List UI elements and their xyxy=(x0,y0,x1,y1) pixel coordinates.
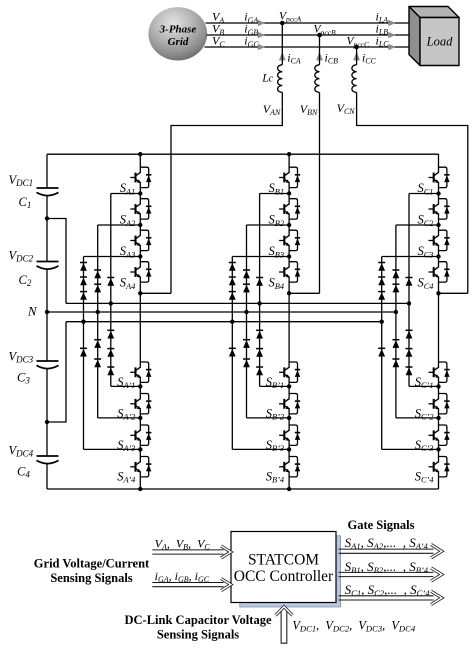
clamp diode DB1u2 xyxy=(229,277,236,285)
capacitor C1 xyxy=(37,188,59,196)
wire junction SA3-SA4 to clamp column xyxy=(84,256,141,258)
clamp diode DB2u1 xyxy=(243,270,250,278)
capacitor C3 xyxy=(37,361,59,369)
clamp diode DC3l2 xyxy=(406,349,413,357)
wire junction SC'2-SC'3 to clamp column xyxy=(396,417,439,419)
IGBT switch SC3 xyxy=(429,230,450,250)
clamp diode DA1l1 xyxy=(80,348,87,356)
leg C main vertical xyxy=(438,154,440,489)
wire leg A midpoint to phase xyxy=(140,292,171,294)
wire clamp column 2 leg C xyxy=(395,225,397,418)
junction leg A J2' xyxy=(138,416,142,420)
wire junction SB1-SB2 to clamp column xyxy=(260,193,290,195)
svg-text:Grid: Grid xyxy=(168,36,189,48)
junction clamp column 2 leg C on rail xyxy=(394,310,398,314)
svg-text:STATCOM: STATCOM xyxy=(248,552,319,569)
arrow iGB xyxy=(258,32,265,39)
arrow iLA xyxy=(388,20,395,27)
wire junction SB3-SB4 to clamp column xyxy=(232,256,289,258)
capacitor C2 xyxy=(37,262,59,270)
wire clamp column 3 leg B xyxy=(259,194,261,387)
IGBT switch SC4 xyxy=(429,262,450,282)
junction clamp column 3 leg B on rail xyxy=(257,301,261,305)
svg-text:Sensing Signals: Sensing Signals xyxy=(50,571,132,585)
junction leg C J1' xyxy=(436,384,440,388)
3-phase grid source xyxy=(148,7,207,60)
svg-text:Grid Voltage/Current: Grid Voltage/Current xyxy=(34,557,150,571)
arrow iLC xyxy=(388,44,395,51)
node leg B AC midpoint xyxy=(287,291,291,295)
IGBT switch SA1 xyxy=(130,167,151,187)
capacitor C4 xyxy=(37,456,59,464)
clamp diode DA2l1 xyxy=(94,340,101,348)
svg-text:3-Phase: 3-Phase xyxy=(159,24,197,36)
wire junction SB'1-SB'2 to clamp column xyxy=(260,385,290,387)
IGBT switch SC'4 xyxy=(429,457,450,477)
clamp diode DC3l3 xyxy=(406,367,413,375)
IGBT switch SC'2 xyxy=(429,394,450,414)
clamp diode DB2l1 xyxy=(243,340,250,348)
junction leg A J1' xyxy=(138,384,142,388)
wire tap3 branch xyxy=(47,322,66,422)
node N xyxy=(45,310,49,314)
junction leg C J3 xyxy=(436,254,440,258)
clamp diode DA2u2 xyxy=(94,284,101,292)
wire clamp rail N (middle) xyxy=(47,311,396,313)
clamp diode DC3u1 xyxy=(406,278,413,286)
arrow DC-link voltage input (up) xyxy=(281,611,287,643)
junction leg B J3 xyxy=(287,254,291,258)
wire tap1 branch xyxy=(47,219,66,304)
clamp diode DB3l2 xyxy=(256,349,263,357)
wire clamp column 1 leg B xyxy=(231,257,233,450)
inductor Lc phase A xyxy=(281,23,283,65)
IGBT switch SA'1 xyxy=(130,362,151,382)
junction leg B bottom bus xyxy=(287,487,291,491)
wire phase line C xyxy=(205,46,420,48)
junction clamp column 2 leg B on rail xyxy=(244,310,248,314)
wire clamp column 2 leg A xyxy=(97,225,99,418)
junction leg B top bus xyxy=(287,152,291,156)
clamp diode DA3l3 xyxy=(107,367,114,375)
junction leg A J3' xyxy=(138,447,142,451)
clamp diode DA1u2 xyxy=(80,277,87,285)
wire junction SC'3-SC'4 to clamp column xyxy=(382,448,439,450)
IGBT switch SA'4 xyxy=(130,457,151,477)
wire phase line A xyxy=(206,22,420,24)
IGBT switch SC'3 xyxy=(429,425,450,445)
arrow gate signals phase B xyxy=(339,572,434,576)
svg-text:c: c xyxy=(269,74,274,85)
wire leg C midpoint to phase xyxy=(439,292,468,294)
junction clamp column 1 leg C on rail xyxy=(380,320,384,324)
wire junction SC3-SC4 to clamp column xyxy=(382,256,439,258)
inductor Lc phase B xyxy=(319,35,321,65)
clamp diode DC1u1 xyxy=(378,263,385,271)
clamp diode DA3l2 xyxy=(107,349,114,357)
wire junction SC1-SC2 to clamp column xyxy=(409,193,439,195)
junction leg B J3' xyxy=(287,447,291,451)
clamp diode DB3u1 xyxy=(256,278,263,286)
wire clamp rail tap1 (upper) xyxy=(66,302,409,304)
junction leg B J1 xyxy=(287,191,291,195)
wire clamp column 1 leg C xyxy=(381,257,383,450)
wire top DC bus xyxy=(47,153,439,155)
arrow grid current input xyxy=(152,583,223,587)
junction leg C J1 xyxy=(436,191,440,195)
junction leg B J2' xyxy=(287,416,291,420)
wire clamp column 2 leg B xyxy=(246,225,248,418)
svg-text:Gate Signals: Gate Signals xyxy=(347,518,414,532)
IGBT switch SB'3 xyxy=(279,425,300,445)
clamp diode DA3u1 xyxy=(107,278,114,286)
IGBT switch SB'1 xyxy=(279,362,300,382)
IGBT switch SB2 xyxy=(279,199,300,219)
clamp diode DB1l1 xyxy=(229,348,236,356)
clamp diode DB2u2 xyxy=(243,284,250,292)
wire phase C to leg C midpoint xyxy=(357,92,468,293)
junction clamp column 1 leg A on rail xyxy=(81,320,85,324)
node between C1 C2 (tap1) xyxy=(45,216,49,220)
clamp diode DC2u1 xyxy=(392,270,399,278)
clamp diode DC1u3 xyxy=(378,292,385,300)
junction leg A top bus xyxy=(138,152,142,156)
IGBT switch SA4 xyxy=(130,262,151,282)
IGBT switch SA3 xyxy=(130,230,151,250)
clamp diode DC2l1 xyxy=(392,340,399,348)
wire junction SA2-SA3 to clamp column xyxy=(98,224,141,226)
wire junction SA'1-SA'2 to clamp column xyxy=(111,385,141,387)
clamp diode DB3l1 xyxy=(256,330,263,338)
clamp diode DC2u2 xyxy=(392,284,399,292)
svg-text:Sensing Signals: Sensing Signals xyxy=(157,628,239,642)
IGBT switch SC2 xyxy=(429,199,450,219)
arrow gate signals phase A xyxy=(339,549,434,553)
IGBT switch SA'3 xyxy=(130,425,151,445)
wire junction SA1-SA2 to clamp column xyxy=(111,193,141,195)
clamp diode DA2u1 xyxy=(94,270,101,278)
junction leg A J2 xyxy=(138,223,142,227)
IGBT switch SB'2 xyxy=(279,394,300,414)
leg B main vertical xyxy=(288,154,290,489)
clamp diode DA3l1 xyxy=(107,330,114,338)
leg A main vertical xyxy=(139,154,141,489)
controller shadow xyxy=(240,536,341,607)
wire junction SB'3-SB'4 to clamp column xyxy=(232,448,289,450)
wire junction SB'2-SB'3 to clamp column xyxy=(247,417,290,419)
wire junction SC2-SC3 to clamp column xyxy=(396,224,439,226)
IGBT switch SB1 xyxy=(279,167,300,187)
node leg A AC midpoint xyxy=(138,291,142,295)
junction leg C J3' xyxy=(436,447,440,451)
junction leg C J2 xyxy=(436,223,440,227)
wire leg B midpoint to phase xyxy=(289,292,319,294)
junction leg B J1' xyxy=(287,384,291,388)
arrow iCA xyxy=(279,52,286,61)
IGBT switch SA'2 xyxy=(130,394,151,414)
clamp diode DC1u2 xyxy=(378,277,385,285)
clamp diode DA2l2 xyxy=(94,359,101,367)
arrow iGA xyxy=(258,20,265,27)
junction clamp column 3 leg A on rail xyxy=(109,301,113,305)
svg-text:N: N xyxy=(27,304,38,319)
clamp diode DB3l3 xyxy=(256,367,263,375)
junction clamp column 3 leg C on rail xyxy=(407,301,411,305)
wire phase A to leg A midpoint xyxy=(171,92,282,293)
load block xyxy=(409,7,459,66)
clamp diode DA1u1 xyxy=(80,263,87,271)
arrow iCC xyxy=(353,52,360,61)
IGBT switch SB3 xyxy=(279,230,300,250)
clamp diode DB1u3 xyxy=(229,292,236,300)
wire junction SA'2-SA'3 to clamp column xyxy=(98,417,141,419)
wire phase line B xyxy=(207,34,420,36)
IGBT switch SC'1 xyxy=(429,362,450,382)
wire phase B to leg B midpoint xyxy=(319,92,321,293)
arrow iGC xyxy=(258,44,265,51)
junction clamp column 1 leg B on rail xyxy=(230,320,234,324)
svg-text:DC-Link Capacitor Voltage: DC-Link Capacitor Voltage xyxy=(124,613,271,627)
wire junction SC'1-SC'2 to clamp column xyxy=(409,385,439,387)
controller box STATCOM OCC xyxy=(231,532,336,603)
junction leg B J2 xyxy=(287,223,291,227)
clamp diode DC2l2 xyxy=(392,359,399,367)
inductor Lc phase C xyxy=(356,47,358,65)
IGBT switch SA2 xyxy=(130,199,151,219)
node between C3 C4 (tap3) xyxy=(45,420,49,424)
wire clamp column 3 leg C xyxy=(408,194,410,387)
arrow iCB xyxy=(316,52,323,61)
svg-text:Load: Load xyxy=(426,35,453,49)
junction leg A bottom bus xyxy=(138,487,142,491)
wire clamp rail tap3 (lower) xyxy=(66,321,382,323)
IGBT switch SC1 xyxy=(429,167,450,187)
junction clamp column 2 leg A on rail xyxy=(96,310,100,314)
clamp diode DA1u3 xyxy=(80,292,87,300)
clamp diode DC1l1 xyxy=(378,348,385,356)
wire junction SB2-SB3 to clamp column xyxy=(247,224,290,226)
IGBT switch SB4 xyxy=(279,262,300,282)
wire clamp column 3 leg A xyxy=(110,194,112,387)
junction leg C J2' xyxy=(436,416,440,420)
junction leg A J1 xyxy=(138,191,142,195)
wire DC-link vertical xyxy=(46,154,48,188)
svg-text:OCC Controller: OCC Controller xyxy=(234,568,334,585)
junction leg A J3 xyxy=(138,254,142,258)
clamp diode DB2l2 xyxy=(243,359,250,367)
clamp diode DC3l1 xyxy=(406,330,413,338)
wire clamp column 1 leg A xyxy=(83,257,85,450)
clamp diode DB1u1 xyxy=(229,263,236,271)
IGBT switch SB'4 xyxy=(279,457,300,477)
arrow iLB xyxy=(388,32,395,39)
arrow grid voltage input xyxy=(152,550,223,554)
wire bottom DC bus xyxy=(47,488,439,490)
arrow gate signals phase C xyxy=(339,596,434,600)
node leg C AC midpoint xyxy=(436,291,440,295)
wire junction SA'3-SA'4 to clamp column xyxy=(84,448,141,450)
